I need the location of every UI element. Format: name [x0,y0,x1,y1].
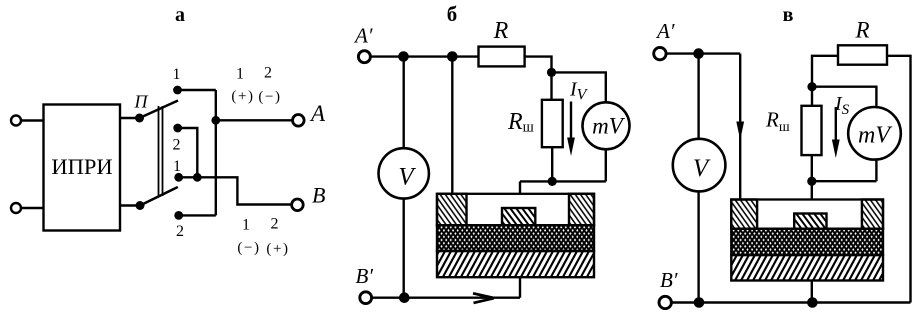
sample b gate pad [502,208,535,225]
svg-text:(−): (−) [237,240,260,256]
resistor R [838,45,887,64]
svg-text:B′: B′ [660,268,678,292]
svg-text:R: R [493,18,509,44]
sample b top layer [437,194,594,225]
svg-text:ИПРИ: ИПРИ [51,154,112,179]
label A' [655,19,675,43]
label IV [569,79,589,104]
svg-text:R: R [854,18,869,43]
caption a [175,4,185,26]
wire bottom of shunt network [812,180,877,182]
wire to gate pad [519,181,521,208]
contact 2 lower [174,211,183,220]
terminal B' [659,296,671,308]
sample b middle layer [437,225,594,251]
wire mV bottom [875,160,877,182]
sample v bottom layer [731,255,883,281]
svg-text:(−): (−) [258,89,281,105]
contact 1 upper [173,86,182,95]
junction V branch [398,51,409,62]
current arrow IS [832,107,840,158]
terminal B [292,199,304,211]
junction V branch [693,48,704,59]
sample v gate pad [794,214,826,229]
svg-text:в: в [783,4,794,26]
junction bottom sample [807,297,818,308]
wire V branch down [403,57,405,149]
wire junction to mV top [812,87,876,107]
svg-text:A′: A′ [655,19,675,43]
wire bottom of shunt network [520,180,606,182]
svg-text:2: 2 [271,215,279,232]
shunt resistor Rsh [542,100,563,147]
wire vertical bus A [215,90,217,215]
millivoltmeter mV [848,107,901,160]
wire [120,204,140,206]
switch blade upper [140,101,179,119]
terminal A [293,115,305,127]
label (-) lower [237,240,260,256]
wire bottom bus [371,297,520,299]
sample v left electrode [731,200,757,229]
wire V to bottom [403,199,405,298]
label 1 (B polarity) [242,216,250,233]
wire junction to mV top [552,72,606,102]
wire contact2-upper down [178,128,198,177]
voltmeter V [673,139,726,192]
svg-text:A: A [309,101,326,126]
junction shunt bottom [548,177,557,186]
junction on bus A [211,116,220,125]
switch mechanical link [159,106,163,196]
label (+) upper [231,89,254,105]
wire to gate pad [811,181,813,213]
caption b [447,2,458,26]
svg-text:(+): (+) [231,89,254,105]
label A' [353,24,373,48]
voltmeter V [379,148,429,198]
label R [493,18,509,44]
shunt resistor Rsh [802,106,822,155]
wire R left to junction [812,56,838,106]
contact 1 lower [174,173,183,182]
wire [21,119,44,121]
svg-text:2: 2 [264,65,272,82]
sample b left electrode [437,194,467,225]
svg-text:а: а [175,4,185,26]
current direction arrow [473,293,494,303]
junction on B path [193,173,202,182]
svg-text:B: B [312,183,325,208]
caption v [783,4,794,26]
terminal input 1 [11,116,21,126]
wire mV bottom [605,149,607,181]
wire sample bottom [811,281,813,303]
switch pole lower common [136,201,145,210]
wire R right down [887,56,911,303]
label (-) upper [258,89,281,105]
sample b right electrode [569,194,594,225]
switch blade lower [140,187,178,206]
label 1 upper [173,66,181,83]
sample v top layer [731,200,883,229]
resistor R [479,47,525,67]
sample v right electrode [862,200,883,229]
wire contact1-lower to terminal B [179,177,292,204]
label 2 (A polarity) [264,65,272,82]
sample b bottom layer [437,251,594,277]
current direction arrow down [736,122,744,141]
svg-text:B′: B′ [356,264,374,288]
wire contact1-upper to bus [178,89,216,91]
svg-text:(+): (+) [266,241,289,257]
svg-text:б: б [447,2,458,26]
label 2 lower [176,223,184,240]
junction bottom left [694,297,705,308]
terminal B' [360,292,372,304]
label B' [356,264,374,288]
wire Rsh bottom [551,147,553,181]
current arrow IV [567,102,575,157]
svg-text:A′: A′ [353,24,373,48]
terminal A' [654,47,666,59]
svg-text:1: 1 [173,66,181,83]
wire V branch down [697,54,699,139]
block IPRI [44,105,121,231]
svg-text:2: 2 [173,137,181,154]
millivoltmeter mV [583,102,630,149]
switch P label [134,92,149,112]
wire bottom bus [671,301,910,303]
svg-text:1: 1 [236,65,244,82]
wire [120,117,140,119]
svg-text:П: П [134,92,149,112]
wire top bus [370,55,478,57]
svg-text:1: 1 [173,158,181,175]
wire V to bottom [697,191,699,302]
label B' [660,268,678,292]
junction R/Rsh [807,82,816,91]
label 1 lower [173,158,181,175]
wire to terminal A [216,119,293,121]
label Rsh [765,108,790,136]
label IS [834,93,850,118]
label A [309,101,326,126]
svg-text:2: 2 [176,223,184,240]
wire contact2-lower to bus [179,214,216,216]
sample v middle layer [731,229,883,255]
svg-text:mV: mV [858,123,892,149]
wire sample bottom [519,277,521,298]
label (+) lower [266,241,289,257]
label 1 (A polarity) [236,65,244,82]
junction bottom [399,292,410,303]
wire Rsh bottom [811,155,813,181]
terminal A' [358,51,370,63]
label 2 upper [173,137,181,154]
label 2 (B polarity) [271,215,279,232]
wire top bus [666,52,740,54]
wire [21,207,44,209]
label R [854,18,869,43]
switch pole upper common [135,114,144,123]
wire top bus to sample electrode [451,57,453,195]
svg-text:1: 1 [242,216,250,233]
junction shunt bottom [807,177,816,186]
label B [312,183,325,208]
terminal input 2 [11,203,21,213]
wire down to electrode [739,54,741,200]
contact 2 upper [173,124,182,133]
wire R to junction [525,57,552,100]
junction sample branch [447,51,458,62]
label Rsh [507,109,534,136]
junction R/mV [547,68,556,77]
svg-text:mV: mV [592,114,626,139]
